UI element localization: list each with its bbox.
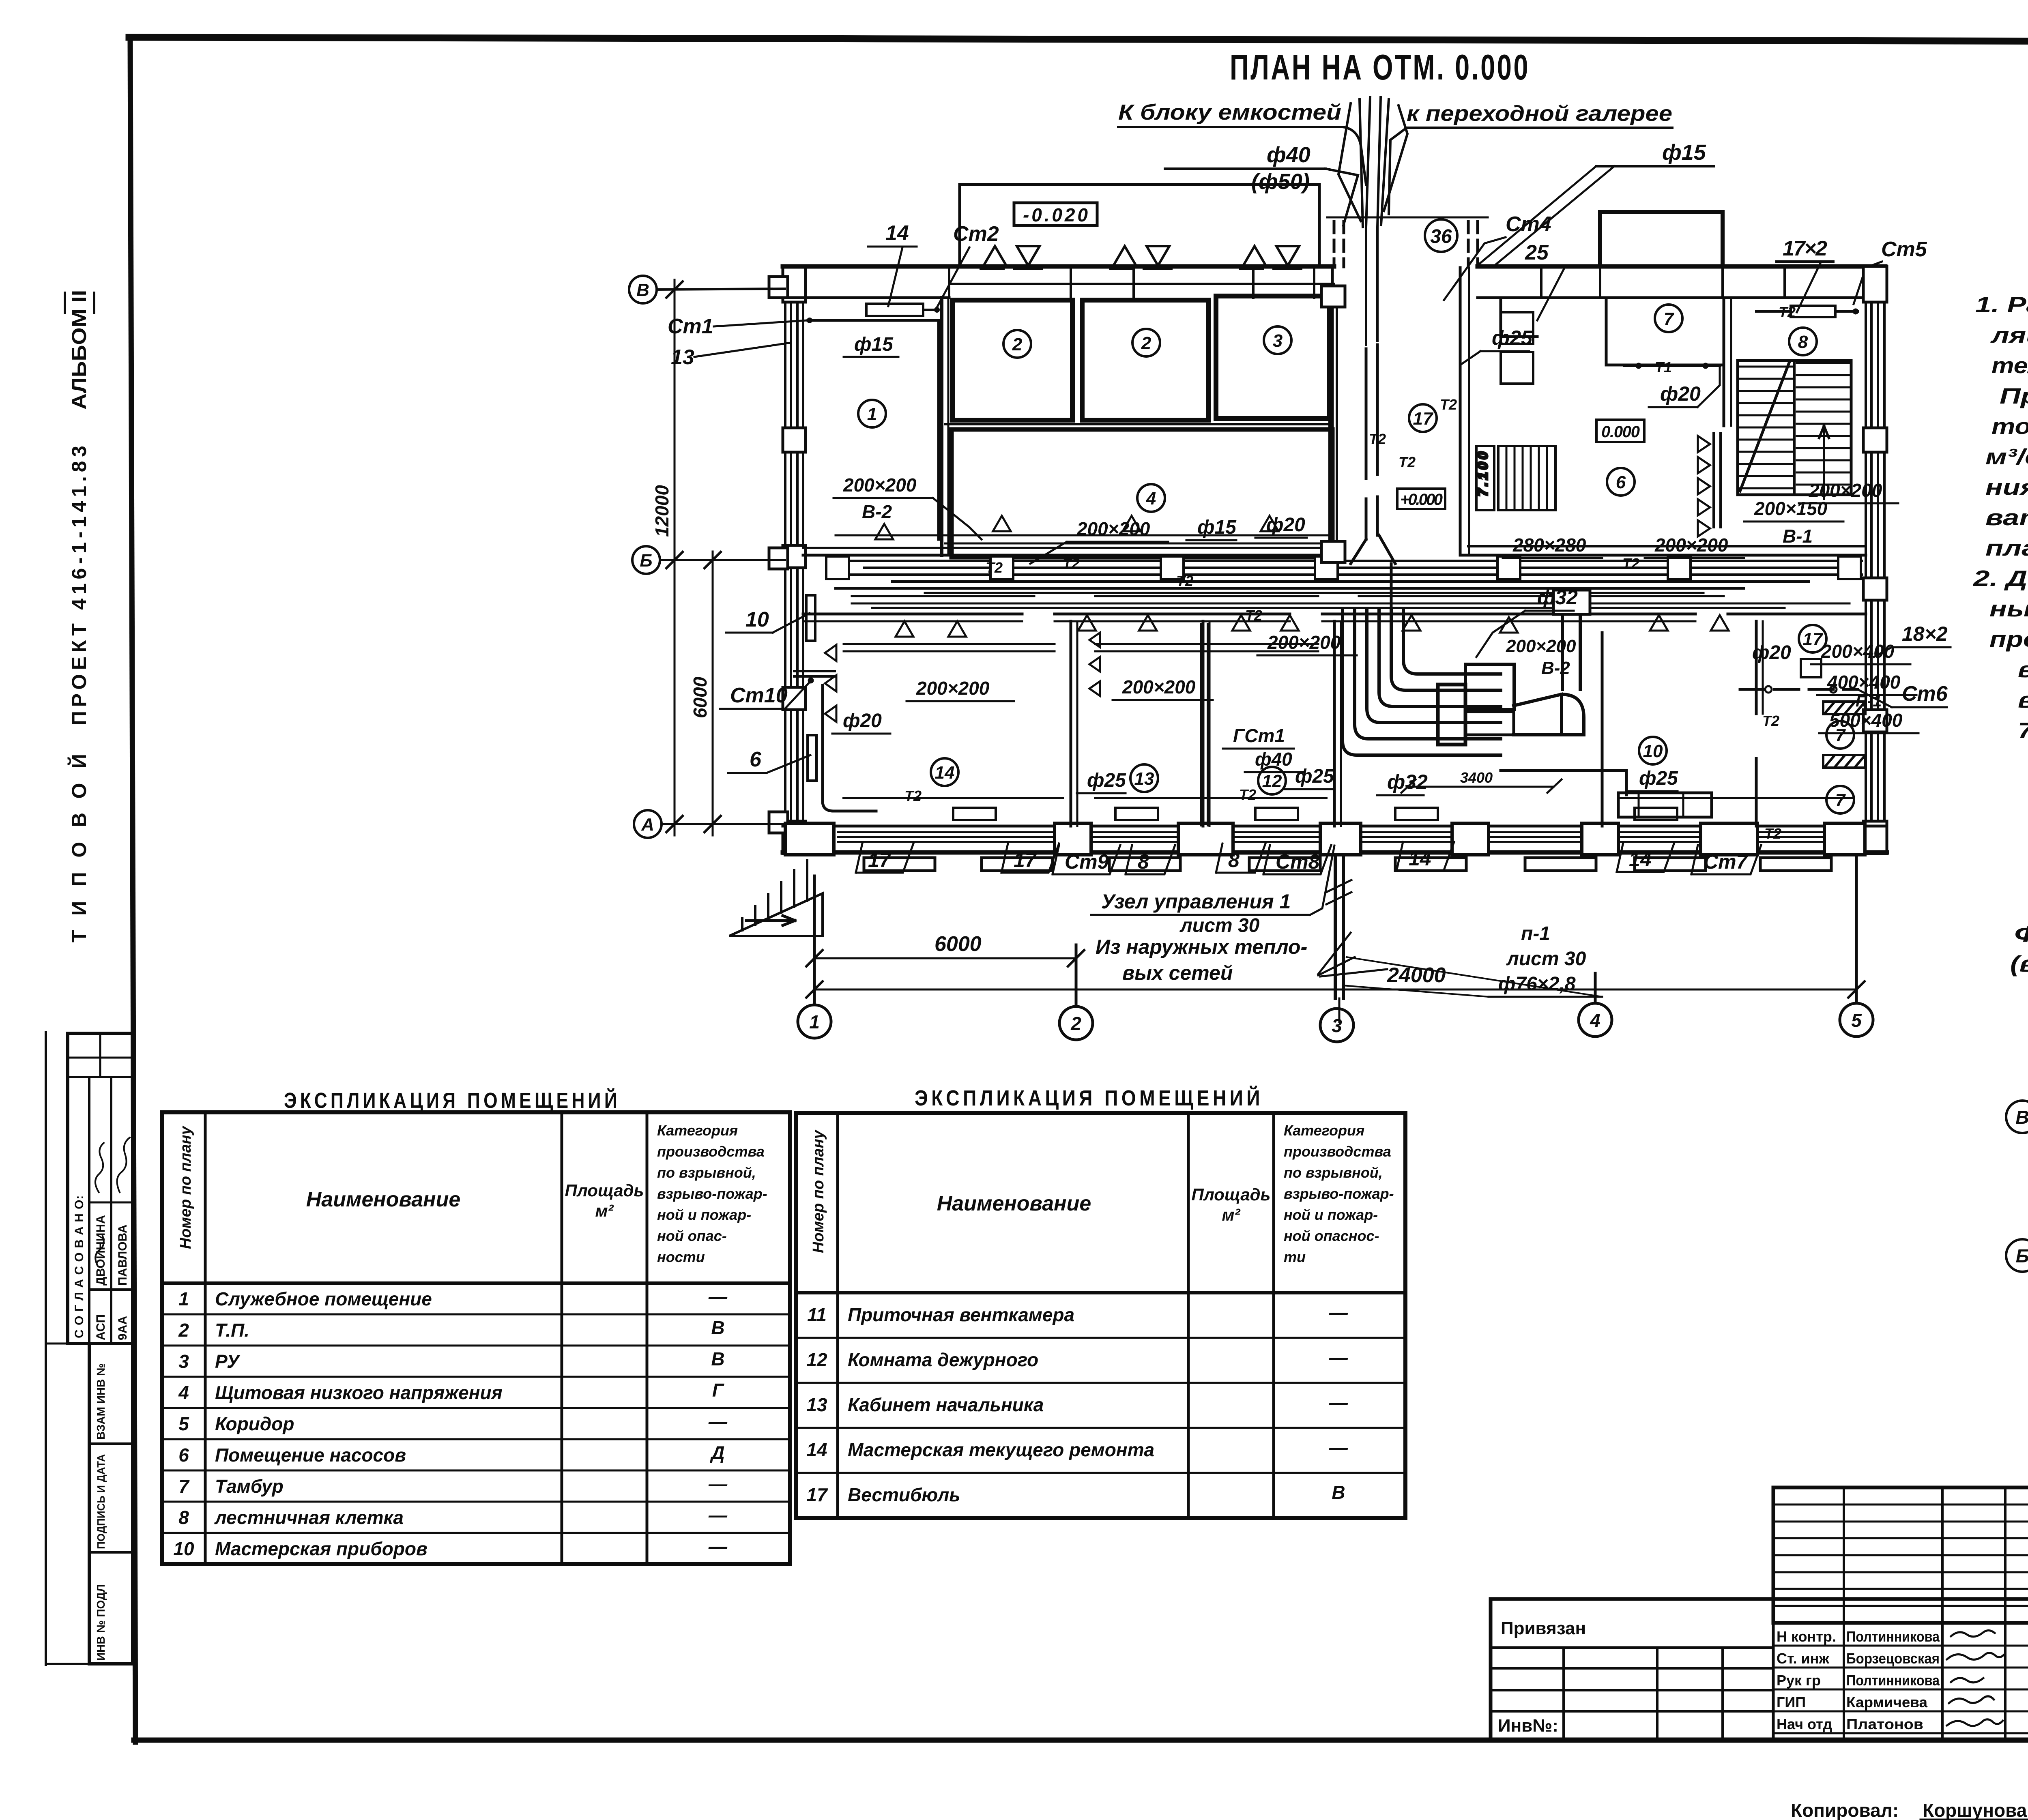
label 17x2 / St5 — [1777, 237, 1927, 312]
svg-text:Фрагмент плана на отм. 0.000: Фрагмент плана на отм. 0.000 — [2014, 921, 2028, 946]
svg-text:ПОДПИСЬ И ДАТА: ПОДПИСЬ И ДАТА — [95, 1454, 107, 1549]
svg-text:по взрывной,: по взрывной, — [657, 1164, 756, 1181]
svg-text:м²: м² — [595, 1201, 614, 1220]
window lines bottom wall — [838, 832, 1823, 842]
label St4 / 25 — [1444, 212, 1566, 320]
pipe risers from gallery — [1338, 97, 1407, 345]
svg-text:(вариант для производительност: (вариант для производительности — [2010, 951, 2028, 977]
small stair room 6 — [1475, 446, 1555, 510]
svg-text:—: — — [1329, 1302, 1348, 1323]
svg-text:ПАВЛОВА: ПАВЛОВА — [116, 1225, 129, 1286]
svg-text:3400: 3400 — [1460, 769, 1493, 786]
svg-text:9АА: 9АА — [116, 1316, 129, 1340]
svg-text:10: 10 — [173, 1538, 194, 1559]
svg-text:18×2: 18×2 — [1902, 622, 1948, 645]
svg-text:1: 1 — [809, 1011, 820, 1032]
svg-text:В-2: В-2 — [1541, 658, 1570, 678]
svg-text:м²: м² — [1222, 1205, 1240, 1224]
svg-text:Помещение насосов: Помещение насосов — [215, 1444, 406, 1466]
svg-text:Приточная венткамера: Приточная венткамера — [848, 1304, 1074, 1325]
svg-text:Щитовая низкого напряжения: Щитовая низкого напряжения — [215, 1382, 503, 1403]
svg-text:11: 11 — [807, 1304, 827, 1325]
svg-text:АСП: АСП — [94, 1314, 107, 1340]
svg-text:—: — — [1329, 1437, 1348, 1458]
svg-text:Рук гр: Рук гр — [1777, 1672, 1821, 1689]
svg-text:ти: ти — [1284, 1249, 1306, 1265]
svg-text:ф25: ф25 — [1295, 766, 1334, 787]
svg-text:Т2: Т2 — [1779, 304, 1796, 320]
svg-text:—: — — [1329, 1392, 1348, 1413]
svg-text:6: 6 — [750, 748, 762, 771]
svg-text:6000: 6000 — [690, 676, 711, 718]
svg-text:производства: производства — [657, 1143, 765, 1160]
svg-text:Копировал:: Копировал: — [1791, 1800, 1899, 1820]
grid bubbles — [2006, 1101, 2028, 1133]
svg-text:ной опаснос-: ной опаснос- — [1284, 1228, 1379, 1244]
level boxes — [1397, 420, 1644, 509]
svg-text:14: 14 — [1409, 847, 1431, 870]
svg-text:Комната дежурного: Комната дежурного — [848, 1349, 1038, 1370]
svg-text:Т2: Т2 — [1245, 607, 1262, 624]
svg-text:2: 2 — [1012, 335, 1023, 354]
svg-text:ф20: ф20 — [1266, 514, 1305, 536]
svg-text:3: 3 — [1332, 1015, 1342, 1036]
bottom band partitions — [1070, 621, 1072, 826]
svg-text:ф20: ф20 — [843, 710, 882, 732]
svg-text:ИНВ № ПОДЛ: ИНВ № ПОДЛ — [95, 1584, 107, 1661]
svg-text:лестничная клетка: лестничная клетка — [214, 1507, 404, 1528]
svg-text:200×200: 200×200 — [843, 474, 917, 496]
svg-text:К блоку емкостей: К блоку емкостей — [1118, 100, 1341, 124]
svg-text:+0.000: +0.000 — [1400, 491, 1443, 509]
svg-text:7: 7 — [1664, 309, 1675, 329]
svg-text:7.100: 7.100 — [1475, 452, 1491, 496]
svg-text:Коршунова: Коршунова — [1923, 1800, 2027, 1820]
svg-text:С О Г Л А С О В А Н О:: С О Г Л А С О В А Н О: — [73, 1195, 86, 1338]
svg-text:производства: производства — [1284, 1143, 1391, 1160]
svg-text:Узел управления 1: Узел управления 1 — [1101, 890, 1291, 913]
svg-text:Категория: Категория — [657, 1122, 738, 1139]
svg-text:2. Диаметры трубопроводов, ука: 2. Диаметры трубопроводов, указан- — [1973, 566, 2028, 591]
ramp symbol — [729, 861, 823, 936]
radiators along bottom wall — [864, 858, 1831, 871]
P-1 supply unit — [1401, 590, 1712, 817]
labels below building — [856, 842, 1761, 997]
svg-text:вых сетей: вых сетей — [1122, 962, 1233, 984]
svg-text:7: 7 — [1835, 790, 1846, 810]
svg-text:Ст10: Ст10 — [730, 684, 788, 707]
svg-text:200×200: 200×200 — [916, 678, 990, 699]
svg-text:Т2: Т2 — [1399, 454, 1416, 470]
svg-text:Т2: Т2 — [1762, 713, 1779, 729]
svg-text:Ст8: Ст8 — [1276, 850, 1320, 873]
svg-text:Номер по плану: Номер по плану — [177, 1125, 194, 1249]
svg-text:Полтинникова: Полтинникова — [1846, 1628, 1940, 1645]
svg-text:ДВОИНИНА: ДВОИНИНА — [94, 1215, 107, 1286]
svg-text:ф20: ф20 — [1752, 642, 1791, 663]
svg-text:Т2: Т2 — [1176, 573, 1193, 589]
svg-text:лист 30: лист 30 — [1506, 948, 1586, 970]
svg-text:ф15: ф15 — [1662, 140, 1706, 165]
svg-text:17: 17 — [868, 849, 892, 871]
svg-text:280×280: 280×280 — [1512, 534, 1586, 556]
svg-text:0.000: 0.000 — [1601, 423, 1640, 441]
duct and pipe labels — [668, 221, 1918, 842]
svg-text:Полтинникова: Полтинникова — [1846, 1672, 1940, 1689]
svg-text:ной и пожар-: ной и пожар- — [1284, 1206, 1378, 1223]
svg-text:24000: 24000 — [1387, 964, 1446, 987]
svg-text:200×200: 200×200 — [1506, 636, 1576, 656]
svg-text:6: 6 — [1616, 472, 1626, 492]
node circle 36 — [1425, 219, 1457, 252]
grid axis bubbles left — [629, 276, 785, 838]
svg-text:13: 13 — [1134, 769, 1154, 789]
svg-text:ф32: ф32 — [1537, 586, 1578, 609]
svg-text:200×200: 200×200 — [1076, 518, 1150, 539]
svg-text:ной и пожар-: ной и пожар- — [657, 1206, 751, 1223]
svg-text:14: 14 — [885, 221, 909, 245]
svg-text:В: В — [636, 280, 649, 300]
gallery dashed walls — [1327, 217, 1488, 267]
svg-text:Н контр.: Н контр. — [1777, 1628, 1836, 1645]
fragment plan drawing — [2006, 1071, 2028, 1345]
fragment plan title — [2010, 921, 2028, 1003]
svg-text:10: 10 — [1643, 741, 1663, 761]
svg-text:ГИП: ГИП — [1777, 1694, 1806, 1711]
svg-text:ф15: ф15 — [854, 334, 894, 355]
svg-text:А: А — [641, 815, 654, 835]
svg-text:25: 25 — [1525, 241, 1549, 264]
svg-text:производительности:: производительности: — [1989, 627, 2028, 652]
svg-text:-0.020: -0.020 — [1023, 204, 1088, 225]
left margin vertical project text — [67, 290, 90, 942]
svg-text:к переходной галерее: к переходной галерее — [1407, 101, 1672, 126]
svg-text:Нач отд: Нач отд — [1777, 1716, 1832, 1732]
svg-text:Ст5: Ст5 — [1881, 238, 1927, 261]
svg-text:ф25: ф25 — [1087, 770, 1126, 791]
svg-text:лист 30: лист 30 — [1179, 915, 1260, 936]
corridor walls — [803, 554, 1332, 557]
svg-text:ные дробью, относятся к вариан: ные дробью, относятся к вариантам — [1989, 596, 2028, 621]
svg-text:Площадь: Площадь — [565, 1181, 644, 1200]
svg-text:Платонов: Платонов — [1846, 1716, 1923, 1732]
svg-text:Инв№:: Инв№: — [1498, 1716, 1558, 1736]
svg-text:Наименование: Наименование — [937, 1192, 1091, 1215]
svg-text:ВЗАМ ИНВ №: ВЗАМ ИНВ № — [95, 1363, 107, 1440]
svg-text:ЭКСПЛИКАЦИЯ ПОМЕЩЕНИЙ: ЭКСПЛИКАЦИЯ ПОМЕЩЕНИЙ — [284, 1088, 621, 1113]
title block main — [1491, 1599, 2028, 1740]
svg-text:Ст9: Ст9 — [1065, 850, 1109, 873]
vent symbols on top wall — [981, 246, 1042, 269]
svg-text:7.0 тыс м³/сутки: 7.0 тыс м³/сутки — [2018, 718, 2028, 743]
svg-text:—: — — [1329, 1347, 1348, 1368]
svg-text:200×150: 200×150 — [1754, 498, 1828, 519]
svg-text:5: 5 — [178, 1413, 189, 1434]
T1 pipe room 7 and radiator room 8 — [1624, 306, 1858, 369]
svg-text:2: 2 — [1141, 333, 1151, 353]
svg-text:200×200: 200×200 — [1122, 676, 1196, 698]
svg-text:Мастерская приборов: Мастерская приборов — [215, 1538, 428, 1559]
svg-text:взрыво-пожар-: взрыво-пожар- — [657, 1185, 767, 1202]
svg-text:ф25: ф25 — [1492, 326, 1533, 349]
svg-text:Т2: Т2 — [986, 559, 1003, 576]
svg-text:Служебное помещение: Служебное помещение — [215, 1288, 432, 1309]
bottom dimension lines — [814, 958, 1856, 989]
svg-text:3: 3 — [178, 1351, 189, 1372]
room number circles — [858, 305, 1854, 813]
-0.020 level box — [1014, 203, 1097, 225]
bottom wall piers — [785, 823, 1865, 855]
svg-text:в числителе- 1.4; 2,7 тыс м³/с: в числителе- 1.4; 2,7 тыс м³/сутки — [2018, 657, 2028, 682]
svg-text:Т2: Т2 — [1369, 431, 1386, 447]
svg-text:Категория: Категория — [1284, 1122, 1364, 1139]
svg-text:17: 17 — [1803, 629, 1824, 649]
svg-text:ф20: ф20 — [1660, 382, 1701, 405]
svg-text:Ст. инж: Ст. инж — [1777, 1650, 1829, 1667]
right block partitions — [1459, 268, 1462, 555]
svg-text:Т2: Т2 — [1764, 825, 1781, 842]
svg-text:8: 8 — [1798, 332, 1808, 352]
svg-text:5: 5 — [1851, 1010, 1862, 1031]
svg-text:Борзецовская: Борзецовская — [1846, 1650, 1940, 1667]
svg-text:В-1: В-1 — [1783, 526, 1813, 547]
svg-text:Т2: Т2 — [1063, 555, 1080, 572]
vent symbols corridor — [875, 516, 1729, 637]
svg-text:взрыво-пожар-: взрыво-пожар- — [1284, 1185, 1394, 1202]
svg-text:—: — — [708, 1536, 728, 1557]
svg-text:14: 14 — [935, 763, 955, 783]
svg-text:Номер по плану: Номер по плану — [810, 1129, 827, 1253]
svg-text:3: 3 — [1273, 331, 1283, 351]
svg-text:1. Разводка систем отопления: 1. Разводка систем отопления и венти- — [1975, 292, 2028, 317]
svg-text:Б: Б — [2016, 1245, 2028, 1266]
svg-text:АЛЬБОМ II: АЛЬБОМ II — [68, 290, 90, 410]
wall risers room14 — [794, 595, 876, 811]
svg-text:ности: ности — [657, 1249, 705, 1265]
svg-text:Д: Д — [709, 1442, 724, 1463]
leader text: K bloku emkostey — [1118, 100, 1714, 264]
svg-text:В: В — [2015, 1107, 2028, 1128]
svg-text:17×2: 17×2 — [1783, 237, 1827, 260]
bars of roman numeral II — [65, 293, 94, 313]
svg-text:Т2: Т2 — [1622, 555, 1639, 572]
svg-text:6: 6 — [178, 1444, 189, 1466]
left lower stamp tables — [46, 1032, 133, 1665]
svg-text:При привязке проекта для вариа: При привязке проекта для вариан- — [2000, 383, 2028, 408]
svg-text:по взрывной,: по взрывной, — [1284, 1164, 1383, 1181]
svg-text:Ст2: Ст2 — [953, 222, 999, 246]
svg-text:Площадь: Площадь — [1192, 1185, 1271, 1204]
svg-text:ф15: ф15 — [1197, 517, 1237, 538]
svg-text:В-2: В-2 — [862, 501, 892, 522]
svg-text:—: — — [708, 1505, 728, 1526]
svg-text:В: В — [711, 1317, 724, 1338]
svg-text:8: 8 — [1138, 850, 1149, 873]
svg-text:ф32: ф32 — [1387, 770, 1428, 793]
svg-text:ляции дана для варианта произв: ляции дана для варианта производи- — [1990, 322, 2028, 348]
svg-text:36: 36 — [1430, 226, 1452, 247]
svg-text:В: В — [711, 1348, 724, 1369]
svg-text:ной опас-: ной опас- — [657, 1228, 727, 1244]
svg-text:Т2: Т2 — [904, 788, 922, 804]
svg-text:м³/сутки разводку систем отопл: м³/сутки разводку систем отопле- — [1985, 444, 2028, 469]
svg-text:Ст1: Ст1 — [668, 315, 713, 338]
svg-text:(ф50): (ф50) — [1251, 170, 1310, 194]
svg-text:12: 12 — [1262, 771, 1282, 791]
svg-text:12000: 12000 — [651, 485, 672, 537]
svg-text:—: — — [708, 1473, 728, 1494]
svg-text:ф40: ф40 — [1255, 749, 1292, 770]
svg-text:Т.П.: Т.П. — [215, 1320, 249, 1341]
svg-text:17: 17 — [1413, 409, 1434, 429]
heat main to external networks — [1326, 855, 1351, 1022]
staircase room 8 — [1738, 361, 1851, 499]
svg-text:ния и вентиляции откорректиро-: ния и вентиляции откорректиро- — [1985, 474, 2028, 500]
svg-text:вать в соответствии с фрагмент: вать в соответствии с фрагментом — [1985, 505, 2028, 530]
signatures squiggles — [1947, 1630, 2004, 1726]
svg-text:Г: Г — [712, 1380, 724, 1401]
svg-text:ГСт1: ГСт1 — [1233, 725, 1285, 746]
svg-text:8: 8 — [1228, 849, 1240, 871]
svg-text:тов производительности 2,7; 4,: тов производительности 2,7; 4,2; 7,0тыс — [1991, 414, 2028, 439]
svg-text:2: 2 — [178, 1320, 189, 1341]
upper platform slab — [960, 185, 1319, 266]
svg-text:плана на отм. 0.000.: плана на отм. 0.000. — [1985, 535, 2028, 560]
corridor heating mains — [803, 535, 1866, 798]
svg-text:2: 2 — [1070, 1013, 1081, 1034]
svg-text:Из наружных тепло-: Из наружных тепло- — [1096, 936, 1307, 958]
svg-text:1: 1 — [867, 404, 877, 424]
svg-text:п-1: п-1 — [1521, 923, 1550, 944]
svg-text:Тамбур: Тамбур — [215, 1476, 284, 1497]
svg-text:—: — — [708, 1411, 728, 1432]
svg-text:400×400: 400×400 — [1827, 672, 1901, 693]
svg-text:17: 17 — [806, 1484, 828, 1505]
svg-text:РУ: РУ — [215, 1351, 241, 1372]
svg-text:Ст4: Ст4 — [1506, 212, 1551, 236]
svg-text:ЭКСПЛИКАЦИЯ ПОМЕЩЕНИЙ: ЭКСПЛИКАЦИЯ ПОМЕЩЕНИЙ — [915, 1086, 1263, 1110]
svg-text:10: 10 — [745, 608, 769, 631]
labels right of building — [1740, 622, 1951, 768]
svg-text:Т1: Т1 — [1655, 359, 1672, 376]
svg-text:Ст7: Ст7 — [1704, 850, 1749, 873]
svg-text:200×200: 200×200 — [1267, 632, 1341, 653]
svg-text:Кабинет начальника: Кабинет начальника — [848, 1394, 1044, 1415]
svg-text:14: 14 — [806, 1439, 827, 1460]
building outer walls — [769, 212, 1887, 854]
svg-text:4: 4 — [1590, 1010, 1600, 1031]
svg-text:8: 8 — [178, 1507, 189, 1528]
svg-text:Наименование: Наименование — [306, 1188, 461, 1211]
svg-text:Т2: Т2 — [1239, 786, 1256, 803]
svg-text:4: 4 — [178, 1382, 189, 1403]
svg-text:Кармичева: Кармичева — [1846, 1694, 1928, 1711]
svg-text:Мастерская текущего ремонта: Мастерская текущего ремонта — [848, 1439, 1154, 1460]
svg-text:—: — — [708, 1286, 728, 1307]
svg-text:Коридор: Коридор — [215, 1413, 294, 1434]
svg-text:В: В — [1332, 1482, 1345, 1503]
svg-text:тельности 1.4 тыс м³/сутки.: тельности 1.4 тыс м³/сутки. — [1991, 353, 2028, 378]
svg-text:Ст6: Ст6 — [1902, 682, 1948, 706]
svg-text:в знаменателе (в скобках) -4.2: в знаменателе (в скобках) -4.2; — [2018, 687, 2028, 713]
title block upper small table — [1773, 1487, 2028, 1623]
svg-text:13: 13 — [671, 346, 694, 369]
svg-text:12: 12 — [806, 1349, 827, 1370]
nested pipe elbows — [1343, 610, 1501, 755]
svg-text:7: 7 — [178, 1476, 190, 1497]
svg-text:13: 13 — [806, 1394, 827, 1415]
svg-text:Б: Б — [640, 551, 652, 571]
radiator triangles room6 — [1698, 433, 1721, 537]
svg-text:Привязан: Привязан — [1501, 1618, 1586, 1638]
bottom grid bubbles — [798, 856, 1873, 1042]
svg-text:ф25: ф25 — [1639, 768, 1678, 789]
svg-text:200×200: 200×200 — [1654, 534, 1728, 556]
notes text block — [1973, 292, 2028, 743]
room7 vestibule walls top right — [1501, 298, 1537, 337]
svg-text:1: 1 — [178, 1288, 189, 1309]
svg-text:ф40: ф40 — [1267, 143, 1310, 167]
vertical dimension lines — [675, 280, 713, 835]
signatures in agreement box — [92, 1137, 130, 1265]
svg-text:ПРОЕКТ 416-1-141.83: ПРОЕКТ 416-1-141.83 — [68, 446, 90, 725]
svg-text:17: 17 — [1014, 849, 1037, 871]
svg-text:4: 4 — [1146, 489, 1156, 509]
svg-text:6000: 6000 — [935, 932, 982, 956]
vertical duct pair room4 — [1201, 286, 1345, 825]
svg-text:Т2: Т2 — [1440, 396, 1457, 413]
svg-text:ПЛАН НА ОТМ. 0.000: ПЛАН НА ОТМ. 0.000 — [1230, 47, 1530, 87]
svg-text:14: 14 — [1629, 848, 1652, 871]
svg-text:Вестибюль: Вестибюль — [848, 1484, 960, 1505]
internal partitions — [803, 268, 1866, 826]
